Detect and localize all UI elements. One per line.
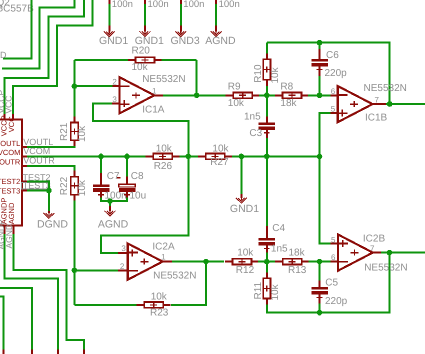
wire IC2B output to edge [381,252,425,254]
pin AGNDP stub (box bottom) [4,225,6,234]
svg-text:R22: R22 [59,176,70,195]
wire C6 top [319,43,321,49]
ground label GND1 #1 [99,35,128,47]
pin stub box right y=156.4 [22,155,27,157]
wire C7 top [100,156,102,173]
svg-text:R10: R10 [253,64,264,83]
svg-text:VCC: VCC [7,116,16,132]
wire TEST2 [27,181,49,190]
pin2 stub IC1A [113,85,121,87]
svg-text:AGND: AGND [7,202,16,224]
label R21 (rotated) [59,122,70,141]
ground label DGND [37,219,68,231]
label R20 [132,46,151,57]
resistor R27 [198,153,232,159]
wire TEST net to DGND [48,191,50,211]
label 10u of C8 [130,190,147,201]
op-amp IC2A [128,244,163,280]
wire R9-R8 junction [259,94,276,96]
pin number 7 IC1B [375,95,380,104]
label 1n5 of C3 [244,111,261,122]
wire R20 feedback riser [196,60,198,95]
wire VCOM rail [27,155,320,157]
ground symbol AGND #4 [211,30,222,36]
capacitor C4 [259,238,276,251]
junction R12/R13/C4/R11 [264,259,270,265]
junction rail/pin5 columns [317,154,323,160]
output stub IC1B [373,103,387,105]
svg-text:TEST2: TEST2 [0,177,20,186]
stub C7 top [100,173,102,184]
junction R22/pin2-IC2A/R23 [72,268,78,274]
net label AGNDP (rotated) [0,219,6,250]
label 10k of R27 [212,144,229,155]
svg-text:R21: R21 [59,122,70,141]
wire IC1A output [163,94,227,96]
svg-text:C3: C3 [249,128,262,139]
junction IC2B output [387,250,393,256]
value label 100n #1 [112,0,133,10]
wire cap 2 to ground [144,4,146,26]
pin name AGND (rotated, red) [7,202,16,224]
net label VCOM [23,146,50,156]
pin number 6 IC2B [331,253,336,262]
svg-text:AGND: AGND [4,224,14,249]
junction R9/R8/R10/C3 [264,93,270,99]
wire AGND down-right-down-right-down [14,234,84,349]
capacitor C leg 1 (100n) [108,0,110,4]
pin number 1 IC2A [161,253,166,262]
junction TEST2/TEST3 [46,188,52,194]
wire pin3 IC2A feedback [101,156,188,253]
label NE5532N of IC2B [364,262,407,273]
svg-text:TEST3: TEST3 [0,187,20,196]
svg-text:R27: R27 [210,157,229,168]
ground label GND1 #2 [135,35,164,47]
pin number 6 IC1B [331,87,336,96]
resistor R10 [263,53,270,86]
wire to R23 [74,304,136,306]
pin name VCOM (red) [0,148,20,157]
value label 100n #2 [148,0,169,10]
stub AGND symbol [109,206,111,211]
svg-text:10k: 10k [156,144,173,155]
wire R10 top [266,43,268,54]
capacitor C leg 4 (100n) [215,0,217,4]
svg-text:AGND: AGND [205,35,236,47]
svg-text:R13: R13 [288,265,307,276]
wire bottom-left A [0,288,32,349]
junction C5 bottom [317,310,323,316]
wire net D (to GND off-image) [3,0,32,59]
svg-text:C7: C7 [107,171,120,182]
ground symbol GND1 (right) [236,197,247,203]
svg-text:IC1B: IC1B [365,113,388,124]
transistor Q2 name label [0,0,10,8]
capacitor C8 (electrolytic) [119,184,136,197]
wire R11 bottom + bottom rail [267,253,390,313]
pin name VOUTL (red) [0,139,20,148]
label R9 [228,82,241,93]
pin stub box right y=181.3 [22,180,27,182]
wire AGNDP down-right-down [5,234,58,349]
wire R10 bottom [266,86,268,96]
ground label GND1 (right) [230,203,259,215]
junction C3/C4 rail [264,154,270,160]
stub C5 bottom [319,294,321,303]
junction R13/C5/pin6 [317,259,323,265]
svg-text:2: 2 [112,78,117,87]
wire staircase 3 to VCCP pin [4,0,84,114]
junction pin2 IC1A [72,83,78,89]
junction C8 top [124,154,130,160]
label 10k of R12 [237,248,254,259]
svg-text:10k: 10k [237,248,254,259]
wire cap 1 to ground [108,4,110,26]
svg-text:GND3: GND3 [171,35,200,47]
svg-text:100n: 100n [148,0,169,10]
svg-text:10k: 10k [228,98,245,109]
pin3 stub IC2A [118,252,128,254]
label C4 [272,223,285,234]
label 10k of R9 [228,98,245,109]
stub C8 top [126,177,128,185]
svg-text:10k: 10k [132,62,149,73]
ground label AGND (C7/C8) [98,218,129,230]
label R13 [288,265,307,276]
junction IC1B output [387,101,393,107]
value label 100n #3 [183,0,204,10]
resistor R21 [71,116,78,146]
label 220p of C6 [325,68,348,79]
wire cap 3 to ground [180,4,182,26]
capacitor C leg 2 (100n) [144,0,146,4]
minus marker C8 [117,177,121,179]
svg-text:100n: 100n [219,0,240,10]
pin number 7 IC2B [370,244,375,253]
svg-text:1: 1 [152,87,157,96]
svg-text:C8: C8 [131,171,144,182]
value label 100n #4 [219,0,240,10]
wire C3 bottom [266,138,268,156]
pin name VCC (rotated, red) [7,116,16,132]
label 18k of R8 [280,98,297,109]
svg-text:AGND: AGND [98,218,129,230]
pin number 3 IC1A [112,95,117,104]
junction C6/pin6 [317,93,323,99]
net label AGND (rotated) [4,224,14,249]
svg-text:C6: C6 [326,50,339,61]
wire C4 top [266,156,268,225]
svg-text:10k: 10k [270,66,281,83]
capacitor C6 [311,59,328,72]
wire C5 bottom [319,304,321,313]
pin stub 3 [180,26,182,32]
svg-text:10k: 10k [151,292,168,303]
svg-text:R26: R26 [154,161,173,172]
resistor R23 [137,302,171,308]
svg-text:1: 1 [161,253,166,262]
label IC1A [142,105,165,116]
stub C6 top [319,49,321,59]
pin stub box right y=190.6 [22,190,27,192]
label IC1B [365,113,388,124]
svg-text:GND1: GND1 [99,35,128,47]
pin name VOUTR (red) [0,157,21,166]
resistor R13 [275,259,309,265]
pin5 stub IC1B [331,112,339,114]
wire bottom-left B [0,296,4,349]
svg-text:GND1: GND1 [230,203,259,215]
label C5 [325,277,338,288]
output stub IC2A [163,261,172,263]
pin stub 2 [144,26,146,32]
svg-text:10k: 10k [77,179,88,196]
label 10k of R11 (rotated) [270,283,281,300]
svg-text:220p: 220p [325,296,348,307]
label NE5532N of IC1B [364,83,407,94]
wire TEST3 [27,190,49,192]
label 10k of R22 (rotated) [77,179,88,196]
svg-text:R12: R12 [236,265,255,276]
plus marker pin3 IC1A [123,100,125,107]
wire staircase 2 [2,0,74,68]
wire GND1 drop [240,156,242,194]
wire C4 bottom [266,253,268,262]
label C6 [326,50,339,61]
wire pin5 IC1B to rail [320,113,331,156]
svg-text:VOUTL: VOUTL [0,139,20,148]
svg-text:IC1A: IC1A [142,105,165,116]
label 100n of C7 [105,190,127,201]
pin number 3 IC2A [121,244,126,253]
wire R13 to pin6 IC2B [309,261,331,263]
transistor Q2 value label BC557B [0,3,34,14]
op-amp IC1B [338,86,373,122]
label IC2B [363,233,386,244]
label R26 [154,161,173,172]
svg-text:R20: R20 [132,46,151,57]
svg-text:NE5532N: NE5532N [153,270,196,281]
resistor R12 [225,259,259,265]
wire VOUTL to R21 [27,146,75,147]
wire R12-R13 [258,261,275,263]
capacitor C5 [311,287,328,300]
label NE5532N of IC2A [153,270,196,281]
stub AGND bottom [83,349,85,354]
svg-text:IC2A: IC2A [152,241,175,252]
wire pin2 IC2A [74,269,118,271]
pin number 5 IC1B [331,105,336,114]
label C3 [249,128,262,139]
svg-text:C5: C5 [325,277,338,288]
label 10k of R23 [151,292,168,303]
stub C6 bottom [319,66,321,76]
svg-text:R9: R9 [228,82,241,93]
ground symbol GND1 #2 [140,30,151,36]
output stub IC2B [373,252,381,254]
pin VCC stub (box top) [12,114,14,120]
wire R20 left [74,59,128,61]
wire staircase 4 to VCC pin [13,0,93,114]
svg-text:R8: R8 [280,82,293,93]
wire R20 right [161,59,196,61]
resistor R22 [71,171,78,201]
svg-text:7: 7 [375,95,380,104]
node label D [0,50,7,60]
wire pin2 IC1A [74,85,112,87]
wire R23 riser [171,262,206,305]
junction IC2A output/R23 [203,259,209,265]
svg-text:R11: R11 [253,281,264,299]
net label TEST3 (boxed) [22,181,51,191]
resistor R8 [275,92,309,98]
stub C5 top [319,281,321,288]
pin number 5 IC2B [331,235,336,244]
label 10k of R26 [156,144,173,155]
stub bottom-left A [31,349,33,354]
net label VCCP (rotated) [0,90,6,114]
wire R22 down to R23 row [73,200,75,305]
svg-text:6: 6 [331,87,336,96]
ground symbol AGND (C7/C8) [105,210,116,216]
wire IC2A output [172,261,224,263]
stub bottom-left B [3,349,5,354]
label 1n5 of C4 [271,243,288,254]
output stub IC1A [154,94,163,96]
wire C5 top [319,262,321,281]
pin6 stub IC1B [331,94,339,96]
pin number 2 IC1A [112,78,117,87]
wire pin3 IC1A feedback [93,104,189,157]
svg-text:1n5: 1n5 [271,243,288,254]
svg-text:10u: 10u [130,190,147,201]
plus marker pin5 IC2B [342,240,344,247]
net label VOUTL [23,137,53,147]
svg-text:D: D [0,50,7,60]
op-amp IC2B [338,235,373,271]
wire cap 4 to ground [215,4,217,26]
junction GND1 drop [239,154,245,160]
svg-text:NE5532N: NE5532N [142,74,185,85]
label C7 [107,171,120,182]
stub C8 bottom [126,192,128,198]
svg-text:6: 6 [331,253,336,262]
stub C4 bottom [266,245,268,252]
wire R8 to pin6 IC1B [308,94,330,96]
svg-text:VCOM: VCOM [0,148,20,157]
label R12 [236,265,255,276]
stub C3 top [266,117,268,123]
resistor R11 [263,272,270,304]
svg-text:IC2B: IC2B [363,233,386,244]
svg-text:3: 3 [112,95,117,104]
op-amp IC1A [120,77,155,113]
wire C7/C8 bottom rail [101,198,127,202]
stub C4 top [266,226,268,238]
pin stub box right y=147.2 [22,146,27,148]
capacitor C3 [259,122,276,135]
svg-text:220p: 220p [325,68,348,79]
svg-text:VOUTR: VOUTR [0,157,21,166]
capacitor C7 [93,184,110,197]
pin6 stub IC2B [331,261,339,263]
IC U1 box (DAC, partially visible) [0,119,22,225]
ground symbol DGND [43,212,54,218]
junction IC1A output/R20 [194,93,200,99]
svg-text:1n5: 1n5 [244,111,261,122]
label C8 [131,171,144,182]
wire R20/pin2/R21 column [73,60,75,117]
label 10k of R20 [132,62,149,73]
svg-text:R23: R23 [150,307,169,318]
svg-text:NE5532N: NE5532N [364,83,407,94]
plus marker pin5 IC1B [341,110,343,117]
stub AGNDP bottom [57,349,59,354]
label R8 [280,82,293,93]
pin stub DGND [48,211,50,213]
label 18k of R13 [289,248,306,259]
wire AGND stub [109,201,111,206]
ground symbol GND3 #3 [175,30,186,36]
junction C6 top [317,40,323,46]
ground symbol GND1 #1 [104,30,115,36]
resistor R20 [128,57,162,63]
svg-text:3: 3 [121,244,126,253]
pin number 1 IC1A [152,87,157,96]
svg-text:VCC: VCC [3,96,13,114]
wire R11 top [266,262,268,273]
pin5 stub IC2B [331,243,339,245]
wire VOUTR to R22 [27,166,75,171]
svg-text:100n: 100n [112,0,133,10]
net label VOUTR [23,156,55,166]
stub C3 bottom [266,130,268,138]
svg-text:C4: C4 [272,223,285,234]
label 10k of R21 (rotated) [77,125,88,142]
label IC2A [152,241,175,252]
ground label GND3 #3 [171,35,200,47]
wire C6 bottom [319,76,321,95]
junction pin3 columns [186,154,192,160]
pin AGND stub (box bottom) [13,225,15,234]
svg-text:7: 7 [370,244,375,253]
svg-text:18k: 18k [280,98,297,109]
stub GND1 symbol [240,194,242,198]
svg-text:10k: 10k [270,283,281,300]
label 220p of C5 [325,296,348,307]
pin stub 4 [215,26,217,32]
wire IC1B feedback rail [267,43,390,104]
svg-text:100n: 100n [183,0,204,10]
wire C8 top [126,156,128,176]
pin2 stub IC2A [118,269,128,271]
svg-text:18k: 18k [289,248,306,259]
svg-text:10k: 10k [77,125,88,142]
pin number 2 IC2A [120,262,125,271]
stub C7 bottom [100,192,102,198]
net label TEST2 [23,173,51,183]
resistor R9 [226,92,260,98]
label NE5532N of IC1A [142,74,185,85]
ground label AGND #4 [205,35,236,47]
label 10k of R10 (rotated) [270,66,281,83]
wire pin5 IC2B from rail [320,156,331,243]
capacitor C leg 3 (100n) [180,0,182,4]
pin stub box right y=165.8 [22,165,27,167]
pin stub 1 [108,26,110,32]
label R11 (rotated) [253,281,264,299]
